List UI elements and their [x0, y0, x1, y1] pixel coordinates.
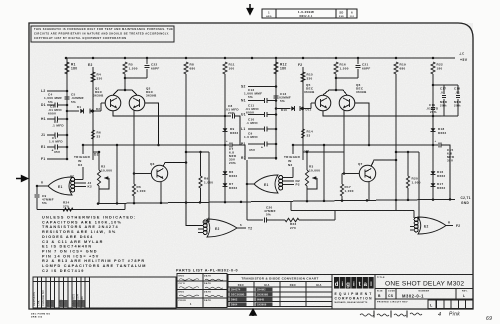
svg-text:M302-0-1: M302-0-1 — [299, 15, 312, 18]
svg-text:1: 1 — [268, 11, 270, 15]
svg-text:DRB 102: DRB 102 — [31, 317, 43, 319]
svg-text:6: 6 — [351, 11, 353, 15]
svg-text:4: 4 — [438, 312, 441, 318]
svg-text:SD: SD — [339, 11, 343, 15]
svg-text:101: 101 — [350, 16, 355, 18]
svg-text:Pink: Pink — [449, 312, 460, 318]
svg-text:ARG: ARG — [266, 15, 272, 18]
svg-text:1-0-20EW: 1-0-20EW — [298, 10, 314, 14]
svg-text:XSD: XSD — [339, 16, 344, 18]
svg-text:DEC FORM NO: DEC FORM NO — [31, 314, 50, 316]
svg-text:69: 69 — [486, 316, 492, 322]
